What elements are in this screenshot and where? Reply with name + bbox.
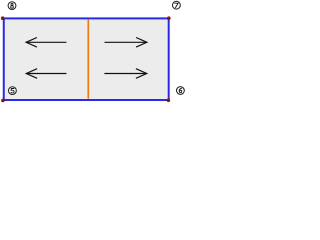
circled label 5 — [9, 87, 17, 95]
circled label 6 — [177, 87, 185, 95]
node dot top-left — [1, 16, 5, 20]
arrow upper-right (pointing right) — [105, 38, 147, 48]
arrow lower-right (pointing right) — [104, 69, 146, 79]
cell rectangle (blue border, gray fill) — [4, 18, 169, 100]
arrow lower-left (pointing left) — [26, 69, 66, 79]
circled label 8 — [8, 2, 16, 10]
node dot top-right — [167, 16, 171, 20]
circled label 7 — [173, 1, 181, 9]
orange divider line — [87, 19, 89, 98]
node dot bottom-left — [1, 99, 5, 103]
arrow upper-left (pointing left) — [26, 38, 66, 48]
node dot bottom-right — [167, 99, 171, 103]
